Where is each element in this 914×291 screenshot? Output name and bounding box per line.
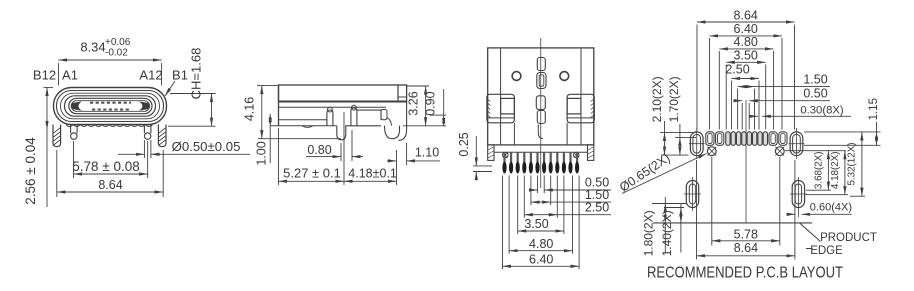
- dimension 8.64 (leg span, front view): [57, 150, 163, 197]
- svg-text:4.80: 4.80: [529, 237, 553, 251]
- front view left mounting leg (hatched): [53, 125, 61, 147]
- svg-text:3.68(2X): 3.68(2X): [813, 152, 824, 190]
- dimension 3.50: [518, 217, 564, 231]
- top view left rivet hole: [512, 72, 521, 81]
- svg-text:6.40: 6.40: [529, 252, 553, 266]
- svg-text:1.15: 1.15: [868, 98, 880, 120]
- dimension 4.18±0.1: [344, 150, 397, 185]
- pcb dimension 1.70(2X): [667, 76, 696, 155]
- svg-text:EDGE: EDGE: [810, 245, 843, 257]
- svg-text:1.40(2X): 1.40(2X): [660, 210, 674, 256]
- pin label B1: [165, 68, 188, 97]
- top view right rivet hole: [560, 72, 569, 81]
- svg-text:2.56 ± 0.04: 2.56 ± 0.04: [23, 137, 38, 205]
- svg-text:3.26: 3.26: [407, 91, 421, 115]
- hole centerline extension right: [785, 150, 846, 152]
- pcb dimension 1.15: [804, 98, 881, 145]
- pcb dimension 6.40: [710, 22, 783, 36]
- dimension 2.56 ± 0.04 (shell height): [23, 87, 53, 207]
- svg-text:0.80: 0.80: [307, 143, 331, 157]
- front view EMI spring fingers (scalloped bottom edge): [66, 125, 152, 127]
- top view centerline: [540, 38, 542, 188]
- top view latch block inner edges: [514, 123, 567, 145]
- pcb left through-hole Ø0.65: [707, 147, 716, 156]
- svg-text:PRODUCT: PRODUCT: [820, 232, 877, 244]
- svg-text:8.64: 8.64: [734, 241, 758, 255]
- dimension 0.90: [424, 89, 446, 126]
- svg-text:8.64: 8.64: [734, 8, 758, 22]
- svg-text:RECOMMENDED P.C.B LAYOUT: RECOMMENDED P.C.B LAYOUT: [647, 265, 843, 282]
- svg-text:1.80(2X): 1.80(2X): [641, 210, 655, 256]
- svg-text:CH=1.68: CH=1.68: [189, 48, 204, 100]
- top view solder pins row: [502, 152, 579, 173]
- dimension 0.80 (leg hole gap): [306, 130, 363, 161]
- front view left solder peg: [71, 125, 78, 140]
- dimension CH=1.68: [168, 48, 216, 127]
- front view tongue with contacts: [69, 98, 152, 113]
- svg-text:B1: B1: [172, 68, 188, 83]
- svg-text:4.16: 4.16: [242, 97, 256, 121]
- pcb right bottom slot: [790, 177, 807, 217]
- pcb layout extension lines to pads: [697, 25, 795, 130]
- pad bottom extension line: [661, 154, 689, 156]
- top view bottom band with hatched ends: [488, 145, 594, 161]
- svg-text:5.27 ± 0.1: 5.27 ± 0.1: [283, 166, 341, 181]
- front view right solder peg: [144, 125, 151, 140]
- product edge line: [653, 222, 812, 224]
- dimension 6.40: [503, 252, 580, 266]
- svg-text:5.78 ± 0.08: 5.78 ± 0.08: [72, 159, 139, 174]
- side view bottom contour with through-hole leg dip: [270, 120, 381, 140]
- svg-text:0.30(8X): 0.30(8X): [800, 104, 844, 116]
- top view left latch block: [487, 94, 515, 123]
- svg-text:-0.02: -0.02: [105, 48, 128, 59]
- svg-text:A12: A12: [139, 68, 162, 83]
- pcb left shield pad: [689, 128, 705, 159]
- pcb dimension 0.60(4X): [787, 202, 853, 215]
- pcb right through-hole Ø0.65: [775, 147, 784, 156]
- pcb dimension 0.50: [734, 87, 831, 101]
- svg-text:4.18±0.1: 4.18±0.1: [348, 167, 397, 181]
- top view body outline: [488, 48, 594, 145]
- top view center latch features: [536, 58, 546, 139]
- dimension 0.50 (pin pitch): [530, 176, 612, 191]
- pcb dimension 2.10(2X): [650, 76, 696, 155]
- dimension 4.16 (side height): [242, 86, 341, 139]
- pcb dimension 4.18(2X): [806, 151, 848, 195]
- svg-text:0.60(4X): 0.60(4X): [810, 202, 852, 214]
- svg-text:1.00: 1.00: [255, 141, 269, 165]
- svg-text:6.40: 6.40: [734, 22, 758, 36]
- top view right rivet below band: [574, 152, 580, 158]
- svg-text:8.34: 8.34: [80, 40, 105, 55]
- pcb dimension 8.64 (top): [697, 8, 795, 22]
- pcb dimension 8.64 (bottom): [697, 160, 795, 259]
- svg-text:2.10(2X): 2.10(2X): [650, 76, 664, 122]
- pin pitch extension lines: [503, 176, 580, 270]
- svg-text:0.90: 0.90: [424, 91, 438, 115]
- svg-text:2.50: 2.50: [585, 201, 609, 215]
- svg-text:1.70(2X): 1.70(2X): [667, 76, 681, 122]
- dimension 1.10 (SMT foot): [387, 143, 440, 165]
- dimension 4.80: [509, 237, 572, 251]
- pcb dimension 3.50: [726, 49, 766, 63]
- pcb dimension 3.68(2X): [806, 151, 831, 191]
- side view contact post 1: [327, 107, 333, 126]
- dimension Ø0.50±0.05 (peg diameter): [118, 139, 250, 158]
- pcb outer pad slots (double-walled): [706, 132, 787, 146]
- front view outer shell: [54, 88, 167, 125]
- svg-text:Ø0.50±0.05: Ø0.50±0.05: [172, 139, 241, 154]
- pcb right shield pad: [789, 128, 805, 159]
- top view right latch block: [567, 94, 594, 123]
- dimension 5.78 ± 0.08 (peg spacing): [72, 141, 147, 178]
- pcb dimension 5.32(12X): [847, 132, 865, 196]
- svg-text:5.32(12X): 5.32(12X): [847, 142, 858, 185]
- svg-text:2.50: 2.50: [725, 62, 749, 76]
- pcb signal pad slots 0.30(8X): [726, 132, 768, 146]
- svg-text:+0.06: +0.06: [105, 37, 131, 48]
- svg-text:Ø0.65(2X): Ø0.65(2X): [617, 151, 673, 195]
- dimension 3.26: [403, 86, 446, 126]
- pcb dimension 2.50: [725, 62, 759, 78]
- pcb layout centerline: [745, 100, 747, 223]
- pcb dimension 1.80(2X): [641, 197, 686, 256]
- pcb dimension 4.80: [719, 35, 773, 49]
- svg-text:3.50: 3.50: [734, 49, 758, 63]
- svg-text:5.78: 5.78: [734, 227, 758, 241]
- dimension 1.00 (leg protrusion): [255, 114, 271, 166]
- front view right mounting leg (hatched): [158, 125, 166, 147]
- dimension 2.50: [524, 201, 611, 215]
- pcb dimension 0.30(8X): [750, 104, 851, 116]
- svg-text:4.80: 4.80: [734, 35, 758, 49]
- side view contact post 2: [351, 105, 357, 126]
- pcb dimension 1.50: [738, 72, 830, 86]
- svg-text:B12: B12: [33, 68, 56, 83]
- side view shell body: [279, 85, 407, 126]
- dimension 0.25 (pin stand-off): [457, 132, 492, 180]
- svg-text:0.50: 0.50: [803, 87, 827, 101]
- svg-text:A1: A1: [62, 68, 78, 83]
- svg-text:0.25: 0.25: [457, 132, 471, 156]
- svg-text:1.50: 1.50: [803, 72, 827, 86]
- side view rear insulator block and SMT foot: [357, 102, 407, 140]
- svg-text:8.64: 8.64: [98, 178, 122, 192]
- dimension 1.50: [531, 188, 611, 202]
- product edge label with leader: [800, 223, 877, 257]
- svg-text:3.50: 3.50: [524, 217, 548, 231]
- pcb left bottom slot: [684, 177, 701, 211]
- dimension 8.34 +0.06/-0.02 (shell width): [59, 37, 162, 86]
- dimension 5.27 ± 0.1: [279, 112, 345, 185]
- pcb dimension 5.78 (bottom): [712, 157, 780, 246]
- pcb dimension 1.40(2X): [660, 203, 684, 256]
- top view left rivet below band: [503, 152, 509, 158]
- leader Ø0.65(2X): [617, 151, 707, 195]
- svg-text:4.18(2X): 4.18(2X): [830, 152, 841, 190]
- svg-text:1.10: 1.10: [415, 145, 439, 159]
